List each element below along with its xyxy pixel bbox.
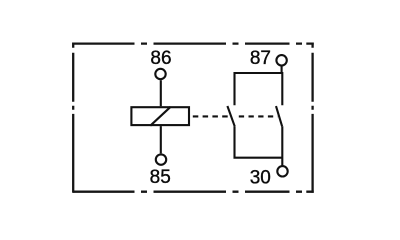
svg-text:87: 87	[250, 48, 271, 69]
svg-text:30: 30	[250, 167, 271, 188]
svg-text:86: 86	[150, 48, 171, 69]
svg-text:85: 85	[150, 167, 171, 188]
